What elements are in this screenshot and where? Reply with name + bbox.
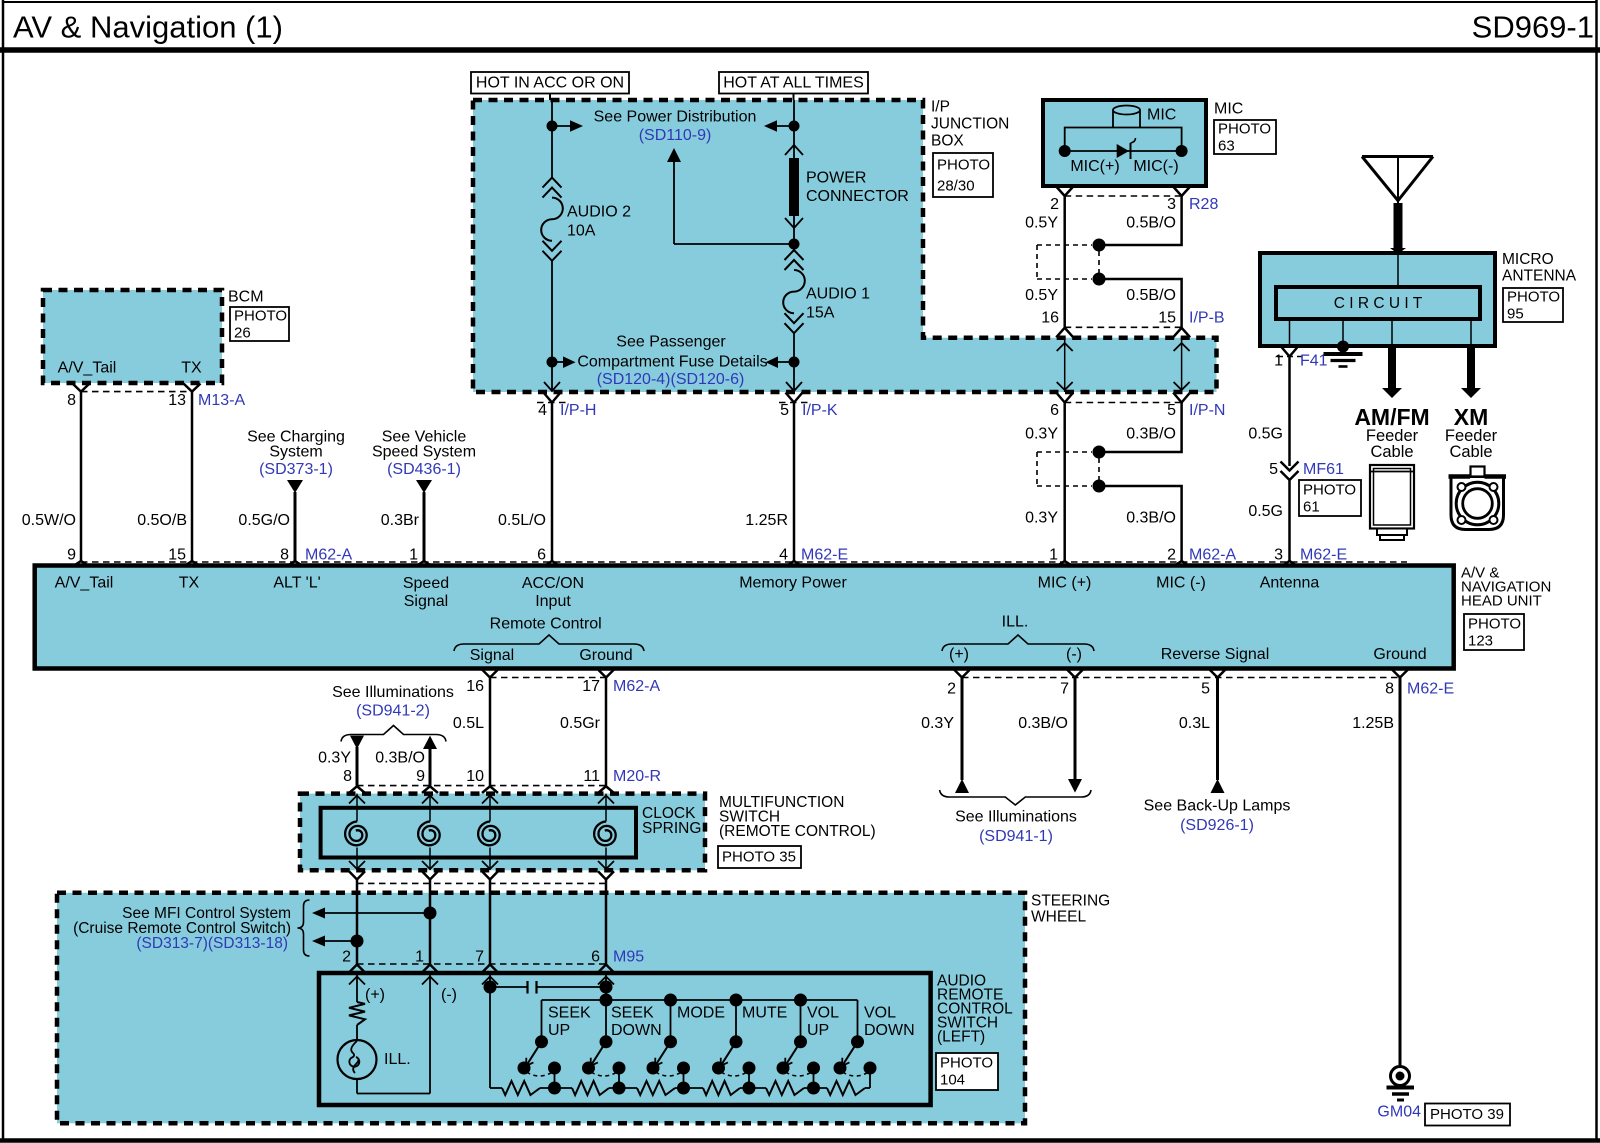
- header rule: [0, 47, 1600, 53]
- svg-text:POWER: POWER: [806, 170, 866, 187]
- node junction fuse-details (right): [789, 357, 800, 368]
- svg-text:Signal: Signal: [404, 593, 448, 610]
- clock spring inner box: [321, 808, 636, 858]
- svg-text:5: 5: [780, 402, 789, 419]
- svg-text:2: 2: [1167, 547, 1176, 564]
- audio switch entry chevrons: [349, 965, 365, 973]
- svg-text:WHEEL: WHEEL: [1031, 909, 1087, 926]
- svg-text:Compartment Fuse Details: Compartment Fuse Details: [577, 354, 767, 371]
- svg-text:(+): (+): [949, 646, 969, 663]
- rail taps: [664, 994, 677, 1007]
- svg-text:Memory Power: Memory Power: [739, 575, 847, 592]
- connector I/P-H row: [537, 402, 567, 404]
- svg-text:0.5G: 0.5G: [1248, 503, 1283, 520]
- wire 0.5B/O mic minus upper: [1099, 196, 1182, 245]
- wire 0.5Gr remote ground: [605, 678, 608, 786]
- capacitor branch: [489, 987, 491, 990]
- svg-text:8: 8: [280, 547, 289, 564]
- wire 0.3Y illumination plus output: [961, 678, 964, 781]
- svg-text:PHOTO: PHOTO: [937, 157, 990, 174]
- svg-text:0.3Y: 0.3Y: [1025, 510, 1058, 527]
- HOT AT ALL TIMES box: [719, 72, 868, 94]
- svg-text:M62-E: M62-E: [1300, 547, 1347, 564]
- svg-text:AUDIO 2: AUDIO 2: [567, 204, 631, 221]
- antenna lead inside: [1397, 254, 1399, 287]
- svg-text:9: 9: [67, 547, 76, 564]
- switch MUTE: [735, 1000, 737, 1042]
- svg-text:M95: M95: [613, 949, 644, 966]
- steering wheel block: [57, 893, 1025, 1124]
- svg-text:26: 26: [234, 325, 251, 342]
- svg-text:11: 11: [583, 768, 600, 785]
- svg-text:0.5B/O: 0.5B/O: [1126, 287, 1176, 304]
- svg-text:(SD110-9): (SD110-9): [639, 127, 712, 144]
- svg-text:6: 6: [537, 547, 546, 564]
- photo ref PHOTO 63: [1214, 120, 1276, 154]
- svg-text:0.5Y: 0.5Y: [1025, 215, 1058, 232]
- wire 0.3Br speed signal: [423, 492, 426, 562]
- svg-text:0.3B/O: 0.3B/O: [1126, 426, 1176, 443]
- svg-text:0.3L: 0.3L: [1179, 715, 1210, 732]
- svg-text:16: 16: [1041, 310, 1059, 327]
- node shield bottom: [1093, 273, 1106, 286]
- svg-text:GM04: GM04: [1377, 1104, 1421, 1121]
- photo ref PHOTO 26: [230, 307, 289, 341]
- arrow to See Power Distribution (left wire): [552, 125, 570, 127]
- svg-text:BCM: BCM: [228, 289, 264, 306]
- svg-text:See Power Distribution: See Power Distribution: [594, 109, 757, 126]
- svg-text:A/V_Tail: A/V_Tail: [55, 575, 114, 592]
- wire 0.3B/O illumination minus: [429, 748, 432, 786]
- svg-text:ALT 'L': ALT 'L': [273, 575, 320, 592]
- brace illumination stubs: [341, 726, 446, 742]
- svg-text:CONNECTOR: CONNECTOR: [806, 188, 909, 205]
- svg-text:(LEFT): (LEFT): [937, 1029, 985, 1046]
- wire 1.25R memory power: [793, 403, 796, 563]
- diode D1: [1117, 144, 1129, 158]
- svg-text:28/30: 28/30: [937, 178, 975, 195]
- svg-text:DOWN: DOWN: [864, 1022, 915, 1039]
- svg-text:M62-A: M62-A: [613, 678, 660, 695]
- clock spring entry chevrons: [349, 786, 365, 793]
- MICRO ANTENNA block: [1260, 253, 1495, 346]
- connector I/P-N row: [1065, 402, 1182, 404]
- node junction on ACC wire: [547, 121, 558, 132]
- svg-text:7: 7: [1060, 681, 1069, 698]
- svg-text:PHOTO 35: PHOTO 35: [722, 849, 796, 866]
- connector row M62 head unit top: [81, 561, 1407, 563]
- svg-text:61: 61: [1303, 499, 1320, 516]
- svg-text:I/P: I/P: [931, 99, 950, 116]
- photo ref PHOTO 35: [718, 846, 801, 868]
- XM feeder stub: [1470, 319, 1472, 346]
- connector I/P-K row: [779, 402, 809, 404]
- arrow MFI branch upper: [325, 912, 430, 914]
- svg-text:PHOTO: PHOTO: [940, 1055, 993, 1072]
- wire mic internal: [1065, 150, 1182, 152]
- wire mic plus through junction strip: [1064, 338, 1066, 392]
- connector I/P-N exit chevrons: [1056, 393, 1073, 403]
- svg-text:Input: Input: [535, 593, 571, 610]
- svg-text:5: 5: [1167, 402, 1176, 419]
- svg-text:See Illuminations: See Illuminations: [332, 684, 454, 701]
- svg-text:(SD436-1): (SD436-1): [387, 461, 461, 478]
- svg-text:1: 1: [1274, 353, 1283, 370]
- svg-text:6: 6: [1050, 402, 1059, 419]
- multifunction switch outer block: [300, 794, 705, 871]
- resistor chain: [490, 1087, 502, 1089]
- svg-text:0.3Br: 0.3Br: [381, 512, 420, 529]
- wire fuse AUDIO2 to exit: [551, 261, 553, 362]
- svg-text:MUTE: MUTE: [742, 1005, 787, 1022]
- wire 0.5L/O ACC/ON input: [551, 403, 554, 563]
- svg-text:M62-A: M62-A: [305, 547, 352, 564]
- photo ref PHOTO 61: [1299, 480, 1361, 516]
- switch MODE: [670, 1000, 672, 1042]
- svg-text:PHOTO: PHOTO: [234, 308, 287, 325]
- node shield bottom lower: [1093, 480, 1106, 493]
- svg-text:0.3B/O: 0.3B/O: [375, 750, 425, 767]
- svg-text:MODE: MODE: [677, 1005, 725, 1022]
- svg-text:1: 1: [1049, 547, 1058, 564]
- svg-text:4: 4: [538, 402, 547, 419]
- svg-text:1: 1: [415, 949, 424, 966]
- svg-text:PHOTO: PHOTO: [1218, 121, 1271, 138]
- svg-text:0.5L/O: 0.5L/O: [498, 512, 546, 529]
- arrow from illuminations into pin 8: [350, 736, 364, 749]
- svg-text:(SD941-2): (SD941-2): [356, 703, 430, 720]
- svg-text:(-): (-): [441, 987, 457, 1004]
- wire 0.5G antenna upper: [1288, 357, 1291, 467]
- svg-text:VOL: VOL: [864, 1005, 896, 1022]
- wire 0.3Y mic plus lower: [1063, 403, 1066, 563]
- switch rail: [605, 987, 607, 1000]
- node junction MFI lower on wire 2: [351, 935, 364, 948]
- arrow to See Passenger Compartment Fuse Details (left): [552, 361, 563, 363]
- svg-text:SD969-1: SD969-1: [1472, 10, 1594, 45]
- svg-text:UP: UP: [548, 1022, 570, 1039]
- svg-text:(SD120-4)(SD120-6): (SD120-4)(SD120-6): [597, 371, 745, 388]
- connector I/P-H exit chevron: [544, 393, 561, 403]
- svg-text:0.5B/O: 0.5B/O: [1126, 215, 1176, 232]
- node shield top lower: [1093, 446, 1106, 459]
- switch SEEK DOWN: [605, 1000, 607, 1042]
- wire fuse AUDIO1 to exit: [793, 333, 795, 362]
- svg-text:0.5G: 0.5G: [1248, 426, 1283, 443]
- svg-text:See Passenger: See Passenger: [616, 334, 726, 351]
- svg-text:SEEK: SEEK: [548, 1005, 591, 1022]
- head unit entry chevrons: [73, 561, 90, 567]
- svg-text:2: 2: [1050, 196, 1059, 213]
- svg-text:SEEK: SEEK: [611, 1005, 654, 1022]
- BCM block: [43, 290, 222, 383]
- microphone symbol: [1065, 128, 1182, 152]
- stub antenna output pin 1: [1289, 319, 1291, 346]
- svg-text:0.3Y: 0.3Y: [318, 750, 351, 767]
- svg-text:8: 8: [67, 392, 76, 409]
- svg-text:6: 6: [591, 949, 600, 966]
- arrow MFI branch lower: [325, 940, 357, 942]
- svg-text:M20-R: M20-R: [613, 768, 661, 785]
- svg-text:Cable: Cable: [1370, 443, 1413, 461]
- svg-text:I/P-K: I/P-K: [802, 402, 838, 419]
- svg-text:0.5Gr: 0.5Gr: [560, 715, 601, 732]
- photo ref PHOTO 39: [1425, 1104, 1510, 1126]
- svg-text:AUDIO 1: AUDIO 1: [806, 286, 870, 303]
- svg-text:123: 123: [1468, 633, 1493, 650]
- svg-text:M62-E: M62-E: [1407, 681, 1454, 698]
- svg-text:ILL.: ILL.: [384, 1051, 411, 1068]
- wire ACC to fuse: [551, 126, 553, 178]
- svg-text:8: 8: [343, 768, 352, 785]
- svg-text:PHOTO: PHOTO: [1303, 482, 1356, 499]
- resistor in ILL branch: [356, 990, 358, 1002]
- svg-text:R28: R28: [1189, 196, 1218, 213]
- inner wire arrowheads: [356, 973, 358, 990]
- svg-text:Speed: Speed: [403, 575, 449, 592]
- svg-text:AV & Navigation (1): AV & Navigation (1): [13, 10, 283, 45]
- svg-text:13: 13: [168, 392, 186, 409]
- svg-text:ILL.: ILL.: [1002, 614, 1029, 631]
- wire 0.3L reverse signal: [1216, 678, 1219, 781]
- wire 0.5L remote signal: [489, 678, 492, 786]
- svg-text:0.5W/O: 0.5W/O: [22, 512, 76, 529]
- svg-text:15: 15: [1158, 310, 1176, 327]
- switch SEEK UP: [541, 1000, 543, 1042]
- svg-text:(SD941-1): (SD941-1): [979, 828, 1053, 845]
- twisted pair shield box lower: [1037, 451, 1092, 453]
- svg-text:0.3Y: 0.3Y: [1025, 426, 1058, 443]
- page border: [3, 1, 1597, 3]
- svg-text:System: System: [269, 444, 322, 461]
- svg-text:See Illuminations: See Illuminations: [955, 809, 1077, 826]
- I/P junction box block: [473, 100, 1217, 392]
- svg-text:MIC(-): MIC(-): [1133, 158, 1178, 175]
- wire branch up to See Power Distribution: [674, 243, 794, 245]
- photo ref PHOTO 28/30: [933, 153, 993, 197]
- svg-text:15A: 15A: [806, 305, 835, 322]
- svg-text:10A: 10A: [567, 223, 596, 240]
- svg-text:M62-A: M62-A: [1189, 547, 1236, 564]
- svg-text:HOT IN ACC OR ON: HOT IN ACC OR ON: [476, 75, 624, 92]
- svg-text:1.25R: 1.25R: [745, 512, 788, 529]
- wire 0.3Y illumination plus: [356, 747, 359, 786]
- svg-text:A/V_Tail: A/V_Tail: [58, 360, 117, 377]
- svg-text:15: 15: [168, 547, 186, 564]
- svg-text:5: 5: [1269, 461, 1278, 478]
- svg-text:2: 2: [947, 681, 956, 698]
- svg-text:Speed System: Speed System: [372, 444, 476, 461]
- svg-text:HOT AT ALL TIMES: HOT AT ALL TIMES: [723, 75, 864, 92]
- svg-text:TX: TX: [179, 575, 200, 592]
- connector MF61 inline: [1281, 462, 1299, 471]
- wire to I/P-K exit with down arrow: [793, 362, 795, 391]
- node junction MFI upper on wire 1: [424, 907, 437, 920]
- svg-text:SPRING: SPRING: [642, 820, 701, 837]
- wire 0.3B/O illumination minus output: [1074, 678, 1077, 781]
- svg-text:1: 1: [409, 547, 418, 564]
- svg-text:ANTENNA: ANTENNA: [1502, 268, 1577, 285]
- wire 0.5O/B TX: [191, 392, 194, 562]
- svg-text:PHOTO: PHOTO: [1468, 616, 1521, 633]
- svg-text:5: 5: [1201, 681, 1210, 698]
- head unit exit chevrons bottom: [482, 669, 499, 678]
- svg-text:DOWN: DOWN: [611, 1022, 662, 1039]
- wire mic minus through junction strip: [1181, 338, 1183, 392]
- ground stub of micro antenna: [1342, 319, 1344, 346]
- svg-text:0.5L: 0.5L: [453, 715, 484, 732]
- fuse AUDIO 2 10A: [543, 178, 562, 188]
- switch VOL UP: [800, 1000, 802, 1042]
- node mic plus terminal: [1059, 145, 1071, 157]
- svg-text:0.5G/O: 0.5G/O: [238, 512, 290, 529]
- HOT IN ACC OR ON box: [471, 72, 629, 94]
- clock spring lower row: [357, 882, 606, 884]
- AM/FM feeder stub: [1391, 319, 1393, 346]
- MIC block: [1043, 100, 1206, 186]
- node junction on B+ wire: [789, 121, 800, 132]
- wire 0.5Y mic plus upper: [1063, 196, 1066, 327]
- svg-text:MIC (+): MIC (+): [1038, 575, 1092, 592]
- lamp ILL.: [338, 1040, 377, 1079]
- svg-text:(REMOTE CONTROL): (REMOTE CONTROL): [719, 823, 876, 840]
- svg-text:0.5Y: 0.5Y: [1025, 287, 1058, 304]
- svg-text:(+): (+): [365, 987, 385, 1004]
- svg-text:9: 9: [416, 768, 425, 785]
- audio remote control switch block: [319, 973, 931, 1105]
- svg-text:16: 16: [466, 678, 484, 695]
- wire 0.5G/O ALT L: [294, 492, 297, 562]
- photo ref PHOTO 123: [1464, 614, 1524, 650]
- svg-text:0.5O/B: 0.5O/B: [137, 512, 187, 529]
- svg-text:M62-E: M62-E: [801, 547, 848, 564]
- AM/FM feeder cable icon: [1370, 465, 1414, 529]
- svg-text:ACC/ON: ACC/ON: [522, 575, 584, 592]
- CIRCUIT box: [1276, 287, 1480, 319]
- svg-text:MIC: MIC: [1147, 107, 1176, 124]
- wires into steering wheel: [356, 883, 359, 964]
- A/V & Navigation head unit block: [35, 566, 1454, 669]
- svg-text:(SD313-7)(SD313-18): (SD313-7)(SD313-18): [136, 935, 288, 952]
- svg-text:Antenna: Antenna: [1260, 575, 1320, 592]
- node junction B+ to power distribution return: [789, 239, 800, 250]
- connector M13-A exit chevrons: [73, 384, 90, 392]
- svg-text:JUNCTION: JUNCTION: [931, 116, 1009, 133]
- svg-text:Ground: Ground: [1373, 646, 1426, 663]
- svg-text:M13-A: M13-A: [198, 392, 245, 409]
- svg-text:MIC: MIC: [1214, 101, 1243, 118]
- twisted pair shield box: [1037, 244, 1092, 246]
- wire 0.5W/O A/V_Tail: [80, 392, 83, 562]
- svg-text:(SD926-1): (SD926-1): [1180, 817, 1254, 834]
- svg-text:MF61: MF61: [1303, 461, 1344, 478]
- svg-text:Ground: Ground: [579, 647, 632, 664]
- svg-text:STEERING: STEERING: [1031, 893, 1110, 910]
- svg-text:See Back-Up Lamps: See Back-Up Lamps: [1144, 798, 1291, 815]
- arrow to See Power Distribution (right wire): [777, 125, 794, 127]
- svg-text:3: 3: [1274, 547, 1283, 564]
- svg-text:I/P-H: I/P-H: [560, 402, 596, 419]
- wire to I/P-H exit with down arrow: [551, 362, 553, 391]
- svg-text:MICRO: MICRO: [1502, 251, 1554, 268]
- connector row head unit bottom right: [962, 677, 1400, 679]
- clock spring exit chevrons: [349, 871, 365, 879]
- connector row head unit bottom remote: [490, 677, 606, 679]
- svg-text:4: 4: [779, 547, 788, 564]
- svg-text:8: 8: [1385, 681, 1394, 698]
- connector R28 row: [1065, 195, 1182, 197]
- switch VOL DOWN: [857, 1000, 859, 1042]
- arrow from charging system: [287, 480, 303, 493]
- wire 0.5G antenna lower: [1288, 480, 1291, 563]
- svg-text:10: 10: [466, 768, 484, 785]
- svg-text:Remote Control: Remote Control: [490, 616, 602, 633]
- brace MFI control: [298, 900, 310, 956]
- svg-text:PHOTO 39: PHOTO 39: [1430, 1106, 1504, 1123]
- svg-text:UP: UP: [807, 1022, 829, 1039]
- svg-text:95: 95: [1507, 306, 1524, 323]
- wire capacitor left to resistor chain: [489, 987, 491, 1088]
- svg-text:MIC(+): MIC(+): [1070, 158, 1119, 175]
- svg-text:MIC (-): MIC (-): [1156, 575, 1206, 592]
- connector I/P-K exit chevron: [786, 393, 803, 403]
- svg-text:0.3B/O: 0.3B/O: [1018, 715, 1068, 732]
- svg-text:2: 2: [342, 949, 351, 966]
- clock spring coils: [356, 794, 358, 822]
- svg-text:Reverse Signal: Reverse Signal: [1161, 646, 1270, 663]
- photo ref PHOTO 95: [1503, 288, 1563, 322]
- svg-text:63: 63: [1218, 138, 1235, 155]
- svg-text:TX: TX: [181, 360, 202, 377]
- svg-text:0.3Y: 0.3Y: [921, 715, 954, 732]
- node mic minus terminal: [1176, 145, 1188, 157]
- svg-text:Cable: Cable: [1449, 443, 1492, 461]
- photo ref PHOTO 104: [936, 1053, 998, 1090]
- svg-text:104: 104: [940, 1072, 965, 1089]
- svg-text:0.3B/O: 0.3B/O: [1126, 510, 1176, 527]
- wire lamp to minus: [356, 1079, 358, 1094]
- wire hot-in-acc feed: [549, 94, 551, 101]
- antenna symbol: [1362, 155, 1433, 158]
- svg-text:Signal: Signal: [470, 647, 514, 664]
- svg-text:I/P-B: I/P-B: [1189, 310, 1225, 327]
- svg-text:PHOTO: PHOTO: [1507, 289, 1560, 306]
- wire 1.25B ground: [1399, 678, 1402, 1067]
- svg-text:17: 17: [582, 678, 600, 695]
- svg-text:HEAD UNIT: HEAD UNIT: [1461, 593, 1542, 610]
- ground GM04 symbol: [1391, 1067, 1410, 1086]
- svg-text:C I R C U I T: C I R C U I T: [1334, 295, 1423, 312]
- svg-text:BOX: BOX: [931, 133, 964, 150]
- power connector symbol: [785, 145, 803, 155]
- svg-text:1.25B: 1.25B: [1352, 715, 1394, 732]
- node junction fuse-details (left): [547, 357, 558, 368]
- fuse AUDIO 1 15A: [793, 244, 795, 250]
- wire 0.3B/O mic minus lower: [1099, 403, 1182, 453]
- svg-text:(SD373-1): (SD373-1): [259, 461, 333, 478]
- XM feeder cable icon: [1451, 477, 1504, 530]
- svg-text:(-): (-): [1066, 646, 1082, 663]
- arrow to illuminations from pin 9: [423, 736, 437, 749]
- brace see illuminations bottom: [940, 790, 1091, 805]
- connector I/P-B entry chevrons: [1056, 328, 1073, 338]
- wire power connector to junction: [793, 216, 795, 244]
- node shield top: [1093, 239, 1106, 252]
- arrow from vehicle speed system: [416, 480, 432, 493]
- wire hot-at-all-times feed: [793, 94, 795, 101]
- connector R28 exit chevrons: [1056, 187, 1073, 197]
- svg-text:I/P-N: I/P-N: [1189, 402, 1225, 419]
